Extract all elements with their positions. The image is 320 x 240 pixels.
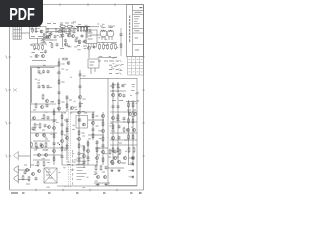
transistor Q13 [111, 93, 114, 96]
wire driver bus [76, 25, 90, 27]
label text [116, 68, 120, 70]
resistor R66 [53, 133, 55, 139]
resistor R40 [37, 161, 39, 167]
frame tick left 3 [9, 122, 11, 124]
resistor R24 [128, 102, 130, 108]
resistor R42 [61, 114, 63, 120]
label rail [121, 85, 124, 87]
capacitor C27 [92, 128, 95, 132]
capacitor C49 [24, 171, 27, 175]
border frame right line [143, 5, 145, 190]
label text [88, 35, 92, 37]
label bias [110, 85, 113, 87]
capacitor C46 [56, 43, 59, 47]
transistor Q42 [110, 160, 113, 163]
label text [94, 171, 97, 173]
resistor R64 [62, 58, 68, 60]
transistor Q56 [46, 36, 49, 39]
parts table outer box [128, 56, 144, 75]
wire to terminal 1 [129, 157, 132, 159]
capacitor C50 [123, 94, 126, 98]
parts table cell text r1c4 [141, 59, 143, 61]
capacitor C21 [44, 124, 47, 128]
resistor R2 [35, 27, 37, 33]
label J2 [109, 60, 112, 62]
transistor Q28 [60, 139, 63, 142]
parts table column line 1 [131, 56, 133, 75]
speaker SP3 [14, 174, 18, 184]
label text [96, 125, 99, 127]
label text [116, 60, 120, 62]
wire rail y120 [88, 119, 104, 121]
resistor R56 [95, 165, 97, 171]
capacitor C33 [87, 156, 90, 160]
title block cell line 5 [133, 44, 144, 46]
wire cluster rail 2 [33, 159, 50, 161]
frame tick bottom 1 [35, 189, 37, 191]
title block cell line 1 [133, 10, 144, 12]
label cluster mid [69, 99, 72, 101]
op-amp U2 box [88, 59, 99, 68]
transistor Q52 [33, 117, 36, 120]
capacitor C18 [117, 105, 120, 109]
title block approval mark [135, 49, 139, 51]
parts table column line 3 [139, 56, 141, 75]
transistor Q41 [103, 175, 106, 178]
title block outer box [126, 5, 143, 57]
wire drop x66 [65, 29, 67, 33]
wire mid feed [90, 34, 100, 36]
frame tick right 3 [142, 122, 144, 124]
wire chain x88 lower [87, 140, 89, 165]
wire bus preamp bottom [32, 60, 46, 62]
capacitor C40 [32, 127, 35, 131]
resistor R14 [107, 43, 109, 50]
wire drop x74 [73, 26, 75, 30]
capacitor C41 [36, 146, 39, 150]
transistor Q31 [83, 123, 86, 126]
speaker SP2 [14, 165, 18, 175]
ground [104, 183, 107, 186]
transistor Q57 [72, 35, 75, 38]
wire loop top [30, 65, 56, 67]
transistor Q6 [64, 43, 67, 46]
node junction [55, 28, 56, 29]
resistor R38 [35, 142, 37, 148]
wire rail y112 [31, 111, 67, 113]
transistor Q43 [117, 160, 120, 163]
wire rail y40 [42, 39, 57, 41]
resistor R30 [128, 134, 130, 140]
wire power chain D [132, 100, 134, 165]
transistor Q38 [25, 168, 28, 171]
parts table cell text r1c2 [133, 59, 135, 61]
transistor Q49 [53, 127, 56, 130]
wire power rail y122 [110, 121, 137, 123]
wire rail y148 right [95, 147, 108, 149]
resistor R43 [61, 130, 63, 136]
sheet mark bottom right [139, 192, 142, 194]
output terminal arrow 4 [132, 176, 134, 179]
label text [38, 36, 43, 38]
page background [0, 0, 149, 198]
label text [32, 52, 36, 54]
capacitor C3 [64, 39, 67, 43]
wire bias chain top [98, 42, 118, 44]
capacitor C31 [114, 150, 117, 154]
wire rail y112 right [71, 111, 95, 113]
transistor Q10 [45, 99, 48, 102]
label text [82, 145, 85, 147]
wire drop at x56 [55, 29, 57, 33]
connector J1 column line 1 [14, 27, 16, 39]
wire power chain C [128, 100, 130, 165]
wire long rail y148 [31, 147, 67, 149]
wire chain x62 [61, 112, 63, 165]
transistor Q11 [57, 107, 60, 110]
capacitor C15 [79, 85, 82, 89]
relay K1 pins [89, 44, 97, 48]
resistor R5 [42, 44, 44, 50]
label text [42, 129, 45, 131]
resistor R29 [112, 124, 114, 130]
transistor Q40 [96, 175, 99, 178]
label text [111, 60, 114, 62]
resistor R53 [102, 136, 104, 142]
resistor R51 [92, 133, 94, 139]
capacitor C48 [54, 35, 57, 39]
ground [110, 169, 113, 172]
frame tick left 2 [9, 89, 11, 91]
resistor R31 [132, 134, 134, 140]
node knot 4 [102, 119, 103, 120]
wire cluster rail [33, 140, 50, 142]
label text [83, 45, 87, 47]
label J3 [109, 64, 112, 66]
frame zone letter bottom 1 [22, 192, 25, 194]
label text [71, 22, 74, 24]
net label VCC [47, 23, 51, 25]
wire rail y155 [33, 154, 62, 156]
capacitor C11 [47, 85, 50, 89]
value labels left loop [35, 65, 54, 102]
label T1 winding [46, 174, 50, 176]
transformer T1 box [44, 168, 57, 183]
transistor Q21 [113, 156, 116, 159]
label text [70, 30, 73, 32]
transistor Q26 [37, 153, 40, 156]
wire chain x67 upper [66, 95, 68, 112]
transistor Q14 [118, 93, 121, 96]
parts table column line 2 [135, 56, 137, 75]
label text [77, 45, 80, 47]
parts table cell text r1c1 [129, 59, 131, 61]
label text [43, 42, 46, 44]
parts table cell text r3c4 [141, 71, 143, 73]
title block cell line 3 [133, 28, 144, 30]
wire speaker feed 3 [19, 179, 31, 181]
wire to terminal 4 [129, 176, 132, 178]
resistor R75 [22, 175, 24, 181]
capacitor C10 [42, 85, 45, 89]
resistor R45 [66, 127, 68, 133]
resistor R48 [78, 143, 80, 149]
wire cluster rail y168 [108, 167, 124, 169]
wire aux feed right [120, 28, 122, 56]
resistor R17 [42, 94, 44, 100]
resistor R22 [112, 83, 114, 89]
capacitor C19 [118, 125, 121, 129]
transistor Q4 [61, 34, 64, 37]
wire bias chain bottom [98, 57, 118, 59]
capacitor C6 [38, 70, 41, 74]
resistor R26 [128, 118, 130, 124]
value labels power section lower [110, 117, 135, 165]
label text [62, 63, 65, 65]
label text [62, 101, 65, 103]
resistor R41 [43, 161, 45, 167]
wire speaker feed 1 [19, 155, 31, 157]
trimmer VR1 [13, 89, 17, 92]
wire chain x80 [79, 70, 81, 112]
transistor Q9 [87, 46, 90, 49]
title block description text lines [134, 17, 140, 27]
capacitor C1 [44, 50, 47, 54]
connector pin arrow 1 [120, 60, 122, 62]
wire Q4 collector [68, 28, 70, 34]
transistor Q55 [83, 155, 86, 158]
capacitor C14 [79, 73, 82, 77]
transistor Q20 [111, 136, 114, 139]
resistor R63 [66, 103, 68, 109]
capacitor C39 [47, 116, 50, 120]
label U2 [90, 61, 95, 63]
label text [116, 64, 120, 66]
label text [88, 38, 93, 40]
title block name text rotated [129, 16, 131, 44]
node junction [71, 26, 72, 27]
wire chain x79 [78, 112, 80, 165]
label text [40, 52, 44, 54]
resistor R59 [119, 149, 121, 155]
parts table cell text r1c3 [137, 59, 139, 61]
transistor Q35 [101, 114, 104, 117]
frame zone letter bottom 4 [103, 192, 106, 194]
transistor Q1 [40, 30, 43, 33]
resistor R72 [51, 43, 53, 49]
wire feed to power section [80, 78, 108, 80]
border frame left line [9, 5, 11, 190]
transistor Q46 [96, 157, 99, 160]
wire mid power rail [110, 111, 137, 113]
title block date text [135, 11, 142, 13]
wire top bus 2 [46, 30, 70, 32]
node junction [39, 26, 40, 27]
frame tick left 4 [9, 155, 11, 157]
resistor R57 [100, 165, 102, 171]
resistor R21 [79, 102, 81, 108]
resistor R12 [99, 43, 101, 50]
parts table cell text r2c4 [141, 65, 143, 67]
transistor Q30 [78, 119, 81, 122]
capacitor C8 [47, 70, 50, 74]
wire power rail y133 [110, 132, 137, 134]
label top cluster [73, 21, 76, 23]
capacitor C51 [123, 117, 126, 121]
label text [108, 156, 111, 158]
wire chain x97 lower [96, 140, 98, 165]
capacitor C24 [61, 155, 64, 159]
value labels power section upper [113, 84, 139, 103]
capacitor C13 [58, 91, 61, 95]
node junction [117, 90, 118, 91]
capacitor C26 [78, 152, 81, 156]
wire bottom cluster rail [94, 182, 110, 184]
transistor Q19 [132, 128, 135, 131]
capacitor C36 [53, 119, 56, 123]
transistor Q22 [123, 156, 126, 159]
connector pin arrow 2 [120, 64, 122, 66]
value labels bottom band [35, 166, 99, 188]
transistor Q8 [83, 40, 86, 43]
resistor R46 [66, 144, 68, 150]
document number bottom left [11, 192, 18, 194]
parts table row line 2 [128, 68, 144, 70]
value labels center chains [57, 69, 85, 111]
resistor R37 [39, 123, 41, 129]
wire output rail top [126, 101, 136, 103]
connector J1 row line 3 [13, 35, 21, 37]
frame tick bottom 4 [116, 189, 118, 191]
wire left bus lower [30, 104, 32, 168]
label gain [50, 39, 53, 41]
resistor R15 [111, 43, 113, 50]
wire Q3 collector [62, 28, 64, 34]
resistor R62 [96, 147, 98, 153]
label C group 1 [37, 67, 40, 69]
border frame top line [10, 4, 144, 6]
transistor Q36 [101, 129, 104, 132]
node junction [47, 28, 48, 29]
label text [130, 162, 133, 164]
wire chain x67 [66, 118, 68, 160]
value labels top-center cluster [57, 25, 88, 50]
connector J1 column line 2 [16, 27, 18, 39]
connector pin arrow 4 [120, 73, 122, 75]
resistor R61 [87, 141, 89, 147]
value labels top-left cluster [30, 28, 48, 57]
resistor R35 [133, 147, 135, 153]
frame tick right 2 [142, 89, 144, 91]
label text [83, 98, 86, 100]
wire top bus 1 [46, 28, 76, 30]
resistor R76 [123, 127, 125, 133]
resistor R19 [58, 79, 60, 85]
label text [112, 100, 116, 102]
wire U2 pin down [90, 68, 92, 74]
capacitor C47 [75, 39, 78, 43]
capacitor C90 [120, 33, 123, 37]
label node A [60, 48, 64, 50]
wire U2 pin down 2 [94, 68, 96, 72]
resistor R71 [83, 146, 85, 152]
transistor Q16 [133, 112, 136, 115]
label LP1 [100, 25, 103, 27]
resistor R47 [78, 130, 80, 136]
wire drop at x48 [47, 29, 49, 33]
connector J1 column line 3 [18, 27, 20, 39]
wire chain x84 lower [83, 145, 85, 168]
transistor Q47 [71, 107, 74, 110]
ground [96, 183, 99, 186]
wire input stage down [37, 39, 39, 45]
label text [124, 139, 128, 141]
shield dashed line 1 [67, 109, 69, 188]
resistor R73 [57, 31, 63, 33]
resistor R13 [103, 43, 105, 50]
resistor R4 [38, 44, 40, 50]
parts table cell text r2c1 [129, 65, 131, 67]
resistor R49 [78, 157, 80, 163]
frame tick left 1 [9, 56, 11, 58]
output terminal arrow 1 [132, 157, 134, 160]
capacitor C9 [38, 85, 41, 89]
resistor R1 [32, 27, 34, 33]
label T1 [46, 171, 51, 173]
transistor Q29 [65, 136, 68, 139]
capacitor C22 [40, 143, 43, 147]
label tone [59, 36, 62, 38]
label text [104, 60, 108, 62]
node junction [75, 28, 76, 29]
resistor R65 [53, 110, 55, 116]
label text [33, 129, 36, 131]
wire loop top inner [32, 66, 55, 68]
wire speaker feed 2 [19, 169, 31, 171]
node junction [132, 111, 133, 112]
capacitor C34 [96, 141, 99, 145]
transistor Q44 [48, 36, 51, 39]
resistor R11 [86, 26, 88, 32]
wire chain x93 [92, 112, 94, 140]
value labels lamp area [97, 24, 118, 57]
frame tick bottom 3 [89, 189, 91, 191]
wire power chain B [117, 82, 119, 162]
transistor Q7 [78, 40, 81, 43]
node junction [128, 111, 129, 112]
frame tick right 1 [142, 56, 144, 58]
frame zone letter bottom 5 [130, 192, 133, 194]
transistor Q12 [78, 95, 81, 98]
capacitor C43 [73, 30, 76, 34]
resistor R36 [34, 123, 36, 129]
label text [48, 177, 53, 179]
node junction [112, 90, 113, 91]
transistor Q39 [31, 172, 34, 175]
transistor Q51 [41, 106, 44, 109]
input stage box U1 [30, 27, 47, 39]
speaker SP1 [14, 151, 18, 161]
transistor Q3 [41, 54, 44, 57]
value labels right mid labels [109, 57, 124, 71]
label text [45, 138, 48, 140]
resistor R52 [102, 121, 104, 127]
resistor R28 [117, 114, 119, 120]
label text [31, 36, 35, 38]
parts table cell text r3c2 [133, 71, 135, 73]
label text [59, 29, 62, 31]
capacitor C42 [83, 161, 86, 165]
